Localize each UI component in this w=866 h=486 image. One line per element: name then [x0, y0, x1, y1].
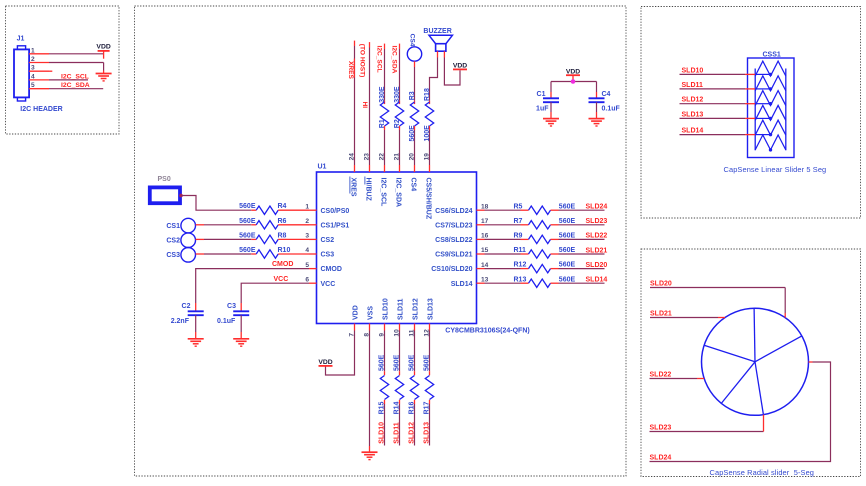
wire pin17 to R7	[485, 224, 529, 226]
svg-text:CS1: CS1	[166, 223, 180, 230]
wire C1 to ground	[550, 102, 552, 118]
capacitor C4	[589, 91, 621, 112]
svg-text:CS1/PS1: CS1/PS1	[321, 222, 350, 229]
node I2C_SCL (top)	[376, 46, 383, 73]
node I2C_SDA (top)	[391, 46, 398, 74]
svg-text:R18: R18	[424, 88, 431, 101]
U1 top pin 22 (I2C_SCL)	[379, 153, 387, 207]
svg-text:VSS: VSS	[368, 306, 375, 320]
resistor R12	[514, 262, 576, 273]
svg-text:SLD13: SLD13	[428, 298, 435, 320]
svg-text:SLD20: SLD20	[650, 280, 672, 287]
wire C2 to ground	[195, 315, 197, 338]
svg-text:SLD12: SLD12	[413, 298, 420, 320]
ground (C3)	[233, 339, 249, 346]
svg-text:CS10/SLD20: CS10/SLD20	[431, 266, 472, 273]
wire to C4	[596, 82, 598, 99]
wire SLD20 to radial	[650, 288, 785, 318]
svg-text:SLD24: SLD24	[650, 455, 672, 462]
node SLD21 (radial)	[650, 311, 672, 318]
svg-text:2.2nF: 2.2nF	[171, 318, 190, 325]
wire VDD rail	[551, 75, 597, 81]
svg-text:17: 17	[481, 218, 489, 225]
node (TO HOST)	[359, 44, 366, 78]
U1 bottom pin 7 (VDD)	[349, 305, 360, 336]
node SLD14	[586, 277, 608, 284]
svg-text:330E: 330E	[394, 86, 401, 103]
U1 left pin 6 (VCC)	[305, 276, 335, 287]
node SLD13	[424, 422, 431, 444]
U1 bottom pin 8 (VSS)	[364, 306, 375, 337]
svg-text:VDD: VDD	[96, 44, 110, 51]
svg-text:330E: 330E	[379, 86, 386, 103]
svg-text:CMOD: CMOD	[321, 266, 342, 273]
svg-text:560E: 560E	[379, 354, 386, 371]
svg-text:4: 4	[305, 247, 309, 254]
wire pin18 to R5	[485, 209, 529, 211]
svg-text:18: 18	[481, 203, 489, 210]
U1 top pin 21 (I2C_SDA)	[394, 153, 402, 207]
resistor R7	[514, 218, 576, 229]
wire CS1 to R6	[196, 224, 257, 226]
wire CS4 to R3	[414, 61, 416, 104]
svg-text:3: 3	[305, 233, 309, 240]
svg-text:SLD10: SLD10	[379, 422, 386, 444]
node SLD24	[586, 204, 608, 211]
node SLD20	[586, 262, 608, 269]
J1 pin 3	[29, 65, 49, 72]
ground (C4)	[589, 119, 605, 126]
svg-text:SLD21: SLD21	[650, 311, 672, 318]
resistor R17	[424, 354, 434, 414]
wire J1 pin1 to VDD	[49, 51, 104, 59]
wire VSS to ground	[369, 331, 371, 452]
svg-text:SLD13: SLD13	[424, 422, 431, 444]
U1 right pin 14 (CS10/SLD20)	[431, 262, 488, 273]
resistor R5	[514, 203, 576, 214]
svg-text:I2C_SCL: I2C_SCL	[376, 46, 383, 73]
svg-text:14: 14	[481, 262, 489, 269]
svg-text:SLD22: SLD22	[650, 372, 672, 379]
svg-text:SLD22: SLD22	[586, 233, 608, 240]
svg-text:560E: 560E	[239, 218, 256, 225]
node SLD10 (slider)	[682, 67, 704, 74]
wire CMOD to C2	[196, 269, 309, 312]
node SLD12	[409, 422, 416, 444]
node VDD junction	[571, 79, 576, 84]
svg-text:CS0/PS0: CS0/PS0	[321, 208, 350, 215]
node SLD12 (slider)	[682, 97, 704, 104]
svg-text:560E: 560E	[424, 354, 431, 371]
svg-text:R13: R13	[514, 276, 527, 283]
svg-text:SLD12: SLD12	[409, 422, 416, 444]
svg-text:SLD10: SLD10	[383, 298, 390, 320]
wire SLD10 to CSS1	[680, 73, 771, 75]
node HI	[361, 102, 368, 109]
wire SLD22 to radial	[650, 378, 705, 380]
svg-text:CS7/SLD23: CS7/SLD23	[435, 222, 472, 229]
svg-text:R4: R4	[278, 203, 287, 210]
ground (J1)	[96, 74, 112, 81]
U1 right pin 15 (CS9/SLD21)	[435, 247, 489, 258]
svg-text:100E: 100E	[424, 125, 431, 142]
svg-text:SLD10: SLD10	[682, 67, 704, 74]
wire SLD14 to CSS1	[680, 134, 771, 136]
wire SLD11 to CSS1	[680, 88, 771, 90]
svg-text:C1: C1	[537, 91, 546, 98]
node SLD13 (slider)	[682, 111, 704, 118]
wire I2C_SDA (pin21)	[399, 44, 401, 105]
U1 left pin 4 (CS3)	[305, 247, 334, 258]
U1 right pin 16 (CS8/SLD22)	[435, 233, 489, 244]
svg-text:XRES: XRES	[347, 61, 354, 80]
wire XRES (pin24)	[354, 41, 356, 165]
svg-text:SLD13: SLD13	[682, 111, 704, 118]
wire R11 to SLD21	[559, 253, 605, 255]
resistor R18	[424, 88, 434, 165]
svg-text:SLD20: SLD20	[586, 262, 608, 269]
svg-text:560E: 560E	[559, 218, 576, 225]
J1 pin 5	[29, 82, 49, 89]
ground (C2)	[188, 339, 204, 346]
svg-text:CS4: CS4	[408, 34, 415, 47]
svg-text:R12: R12	[514, 262, 527, 269]
wire to C1	[550, 82, 552, 99]
U1 top pin 23 (HI/BUZ)	[364, 153, 372, 202]
svg-text:CS2: CS2	[166, 238, 180, 245]
svg-text:U1: U1	[318, 164, 327, 171]
label CapSense Linear Slider	[724, 165, 827, 174]
wire buzzer left to R18	[430, 51, 438, 104]
svg-text:SLD11: SLD11	[398, 298, 405, 320]
svg-text:560E: 560E	[559, 262, 576, 269]
wire buzzer right to VDD	[444, 51, 460, 85]
node SLD24 (radial)	[650, 455, 672, 462]
svg-text:R3: R3	[409, 91, 416, 100]
wire J1 pin5 I2C_SDA	[49, 88, 103, 90]
wire pin14 to R12	[485, 268, 529, 270]
node I2C_SCL (J1)	[61, 73, 89, 80]
wire R12 to SLD20	[559, 268, 605, 270]
wire R15 to SLD10	[384, 404, 386, 446]
resistor R4	[239, 203, 309, 214]
buzzer BUZZER	[423, 28, 452, 51]
svg-text:SLD14: SLD14	[451, 281, 473, 288]
wire C4 to ground	[596, 102, 598, 118]
svg-text:C4: C4	[602, 91, 611, 98]
wire PS0 to R4	[181, 196, 256, 211]
node SLD23 (radial)	[650, 425, 672, 432]
resistor R10	[239, 247, 309, 258]
svg-text:560E: 560E	[559, 233, 576, 240]
power VDD (C1 C4)	[566, 68, 580, 75]
svg-text:SLD14: SLD14	[682, 128, 704, 135]
U1 left pin 2 (CS1/PS1)	[305, 218, 349, 229]
svg-text:1uF: 1uF	[536, 105, 549, 112]
svg-text:6: 6	[305, 276, 309, 283]
svg-text:560E: 560E	[394, 354, 401, 371]
U1 left pin 3 (CS2)	[305, 233, 334, 244]
wire R16 to SLD12	[414, 404, 416, 446]
U1 bottom pin 11 (SLD12)	[409, 298, 420, 336]
power VDD (J1)	[96, 44, 110, 51]
svg-text:16: 16	[481, 233, 489, 240]
button CS4	[407, 34, 421, 62]
resistor R16	[409, 354, 419, 414]
wire J1 pin2 to ground	[49, 63, 104, 74]
wire R5 to SLD24	[559, 209, 605, 211]
svg-text:560E: 560E	[409, 354, 416, 371]
svg-text:560E: 560E	[239, 232, 256, 239]
svg-text:SLD14: SLD14	[586, 277, 608, 284]
wire R7 to SLD23	[559, 224, 605, 226]
node SLD21	[586, 247, 608, 254]
svg-text:R5: R5	[514, 203, 523, 210]
resistor R8	[239, 232, 309, 243]
svg-text:VCC: VCC	[321, 281, 336, 288]
resistor R15	[379, 354, 389, 414]
U1 top pin 20 (CS4)	[409, 153, 417, 191]
wire I2C_SCL (pin22)	[384, 44, 386, 105]
svg-text:CS9/SLD21: CS9/SLD21	[435, 252, 472, 259]
wire pin12 to R17	[429, 331, 431, 376]
svg-text:CY8CMBR3106S(24-QFN): CY8CMBR3106S(24-QFN)	[445, 327, 529, 334]
svg-text:CS2: CS2	[321, 237, 335, 244]
wire R14 to SLD11	[399, 404, 401, 446]
wire J1 pin4 I2C_SCL	[49, 79, 88, 81]
wire SLD13 to CSS1	[680, 117, 771, 119]
svg-text:560E: 560E	[559, 276, 576, 283]
node PS0 junction	[179, 194, 183, 198]
svg-text:R6: R6	[278, 218, 287, 225]
U1 left pin 5 (CMOD)	[305, 262, 342, 273]
svg-text:560E: 560E	[409, 125, 416, 142]
ground (VSS)	[362, 452, 378, 459]
svg-text:J1: J1	[17, 36, 25, 43]
svg-text:HI: HI	[361, 102, 368, 109]
svg-text:13: 13	[481, 276, 489, 283]
resistor R1	[379, 86, 389, 165]
svg-text:SLD23: SLD23	[586, 218, 608, 225]
slider radial	[702, 308, 809, 415]
node SLD22	[586, 233, 608, 240]
svg-text:SLD12: SLD12	[682, 97, 704, 104]
svg-text:I2C_SCL: I2C_SCL	[61, 73, 89, 80]
svg-text:SLD23: SLD23	[650, 425, 672, 432]
svg-text:560E: 560E	[559, 247, 576, 254]
wire J1 pin3 stub	[49, 70, 52, 72]
U1 right pin 13 (SLD14)	[451, 276, 489, 287]
svg-text:CS8/SLD22: CS8/SLD22	[435, 237, 472, 244]
node CMOD	[272, 261, 293, 268]
U1 left pin 1 (CS0/PS0)	[305, 203, 349, 214]
button CS3	[166, 248, 195, 263]
U1 right pin 18 (CS6/SLD24)	[435, 203, 489, 214]
svg-text:CS6/SLD24: CS6/SLD24	[435, 208, 472, 215]
J1 pin 1	[29, 47, 49, 54]
wire VCC to C3	[241, 283, 309, 311]
U1 top pin 24 (XRES)	[349, 153, 357, 197]
svg-text:0.1uF: 0.1uF	[602, 105, 621, 112]
wire pin10 to R14	[399, 331, 401, 376]
node I2C_SDA (J1)	[61, 82, 90, 89]
wire R13 to SLD14	[559, 282, 605, 284]
node SLD14 (slider)	[682, 128, 704, 135]
svg-text:SLD11: SLD11	[682, 82, 704, 89]
svg-text:R10: R10	[278, 247, 291, 254]
svg-text:R7: R7	[514, 218, 523, 225]
J1 pin 2	[29, 56, 49, 63]
J1 pin 4	[29, 73, 49, 80]
wire R9 to SLD22	[559, 238, 605, 240]
capacitor C2	[171, 303, 204, 325]
svg-text:R2: R2	[394, 119, 401, 128]
U1 top pin 19 (CS5/SH/BUZ)	[424, 153, 432, 220]
svg-text:VCC: VCC	[274, 276, 289, 283]
svg-text:R1: R1	[379, 119, 386, 128]
wire SLD12 to CSS1	[680, 103, 771, 105]
node SLD23	[586, 218, 608, 225]
svg-text:CapSense Linear Slider 5 Seg: CapSense Linear Slider 5 Seg	[724, 165, 827, 174]
node VCC	[274, 276, 289, 283]
wire SLD21 to radial	[650, 317, 725, 319]
resistor R3	[409, 91, 419, 165]
svg-text:2: 2	[305, 218, 309, 225]
svg-text:(TO HOST): (TO HOST)	[359, 44, 366, 78]
svg-text:SLD21: SLD21	[586, 247, 608, 254]
slider CSS1	[748, 52, 795, 158]
svg-text:0.1uF: 0.1uF	[217, 318, 236, 325]
capacitor C1	[536, 91, 559, 112]
U1 right pin 17 (CS7/SLD23)	[435, 218, 489, 229]
svg-text:CS4: CS4	[409, 178, 416, 192]
svg-text:I2C HEADER: I2C HEADER	[20, 106, 62, 113]
resistor R11	[514, 247, 576, 258]
svg-text:5: 5	[305, 262, 309, 269]
svg-text:1: 1	[305, 203, 309, 210]
resistor R14	[394, 354, 404, 414]
connector J1	[14, 36, 63, 113]
svg-text:C2: C2	[182, 303, 191, 310]
svg-text:CS5/SH/BUZ: CS5/SH/BUZ	[424, 178, 431, 220]
wire C3 to ground	[240, 315, 242, 338]
svg-text:CS3: CS3	[166, 252, 180, 259]
U1 bottom pin 10 (SLD11)	[394, 298, 405, 336]
svg-text:CMOD: CMOD	[272, 261, 293, 268]
svg-text:R11: R11	[514, 247, 527, 254]
svg-text:560E: 560E	[559, 203, 576, 210]
pad PS0	[150, 176, 180, 203]
resistor R6	[239, 218, 309, 229]
node SLD11 (slider)	[682, 82, 704, 89]
wire pin7 to VDD	[326, 331, 355, 376]
ground (C1)	[543, 119, 559, 126]
wire pin13 to R13	[485, 282, 529, 284]
wire HI (pin23)	[369, 42, 371, 165]
svg-text:VDD: VDD	[353, 305, 360, 320]
svg-text:560E: 560E	[239, 203, 256, 210]
wire pin9 to R15	[384, 331, 386, 376]
svg-text:C3: C3	[227, 303, 236, 310]
wire pin11 to R16	[414, 331, 416, 376]
svg-text:R8: R8	[278, 232, 287, 239]
capacitor C3	[217, 303, 249, 325]
resistor R2	[394, 86, 404, 165]
wire pin15 to R11	[485, 253, 529, 255]
U1 bottom pin 12 (SLD13)	[424, 298, 435, 336]
button CS1	[166, 218, 195, 233]
svg-text:SLD11: SLD11	[394, 422, 401, 444]
svg-text:CS3: CS3	[321, 252, 335, 259]
svg-text:CapSense Radial slider 5-Seg: CapSense Radial slider 5-Seg	[710, 468, 815, 477]
power VDD (pin7)	[318, 359, 332, 366]
node SLD11	[394, 422, 401, 444]
button CS2	[166, 233, 195, 248]
resistor R13	[514, 276, 576, 287]
wire CS2 to R8	[196, 238, 257, 240]
node SLD10	[379, 422, 386, 444]
wire R17 to SLD13	[429, 404, 431, 446]
svg-text:R9: R9	[514, 233, 523, 240]
svg-text:SLD24: SLD24	[586, 204, 608, 211]
svg-text:I2C_SDA: I2C_SDA	[61, 82, 90, 89]
svg-text:PS0: PS0	[158, 176, 171, 183]
wire SLD24 to radial	[650, 362, 831, 462]
svg-text:BUZZER: BUZZER	[423, 28, 451, 35]
svg-text:I2C_SCL: I2C_SCL	[379, 178, 386, 208]
wire CS3 to R10	[196, 253, 257, 255]
svg-text:I2C_SDA: I2C_SDA	[391, 46, 398, 74]
wire pin16 to R9	[485, 238, 529, 240]
wire SLD23 to radial	[650, 415, 764, 432]
svg-text:560E: 560E	[239, 247, 256, 254]
svg-text:I2C_SDA: I2C_SDA	[394, 178, 401, 208]
node SLD20 (radial)	[650, 280, 672, 287]
node XRES	[347, 59, 354, 80]
op-amp U1 body	[317, 164, 530, 335]
label CapSense Radial slider	[710, 468, 815, 477]
resistor R9	[514, 233, 576, 244]
U1 bottom pin 9 (SLD10)	[379, 298, 390, 336]
power VDD (buzzer)	[453, 63, 467, 70]
svg-text:15: 15	[481, 247, 489, 254]
node SLD22 (radial)	[650, 372, 672, 379]
